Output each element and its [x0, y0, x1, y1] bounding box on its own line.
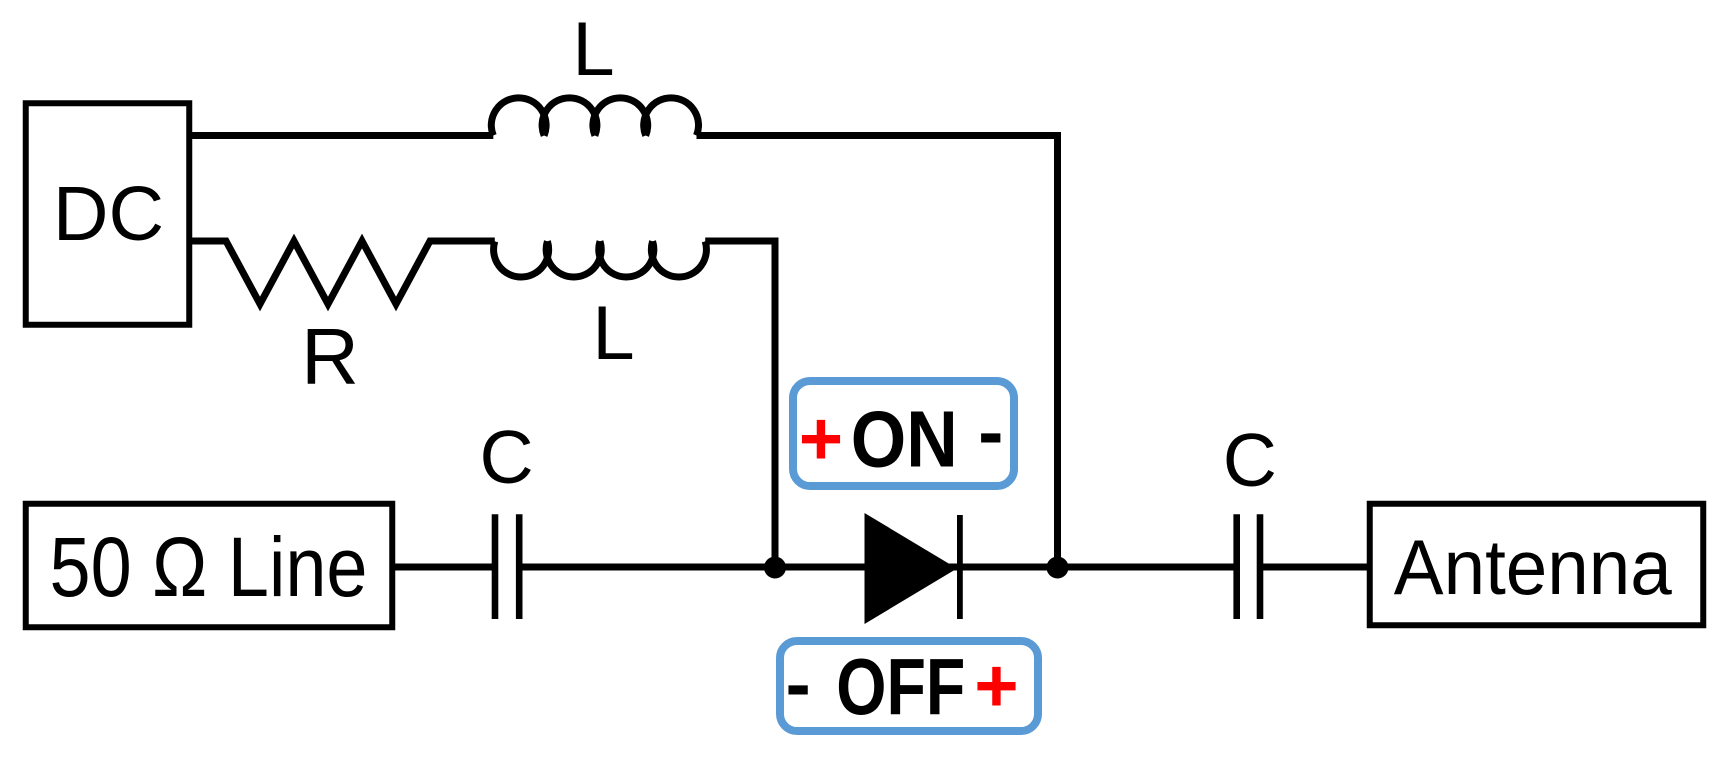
- svg-text:-: -: [978, 390, 1003, 475]
- svg-text:50 Ω Line: 50 Ω Line: [50, 520, 368, 614]
- svg-text:DC: DC: [53, 171, 164, 257]
- svg-text:+: +: [974, 644, 1018, 729]
- svg-text:-: -: [786, 642, 811, 727]
- svg-text:C: C: [1223, 418, 1277, 502]
- svg-text:+: +: [799, 397, 843, 482]
- svg-text:L: L: [572, 7, 614, 92]
- svg-text:OFF: OFF: [836, 642, 965, 731]
- svg-text:ON: ON: [851, 395, 958, 484]
- svg-text:C: C: [480, 415, 534, 499]
- svg-text:Antenna: Antenna: [1394, 523, 1673, 611]
- svg-text:R: R: [301, 312, 359, 401]
- svg-text:L: L: [592, 291, 634, 376]
